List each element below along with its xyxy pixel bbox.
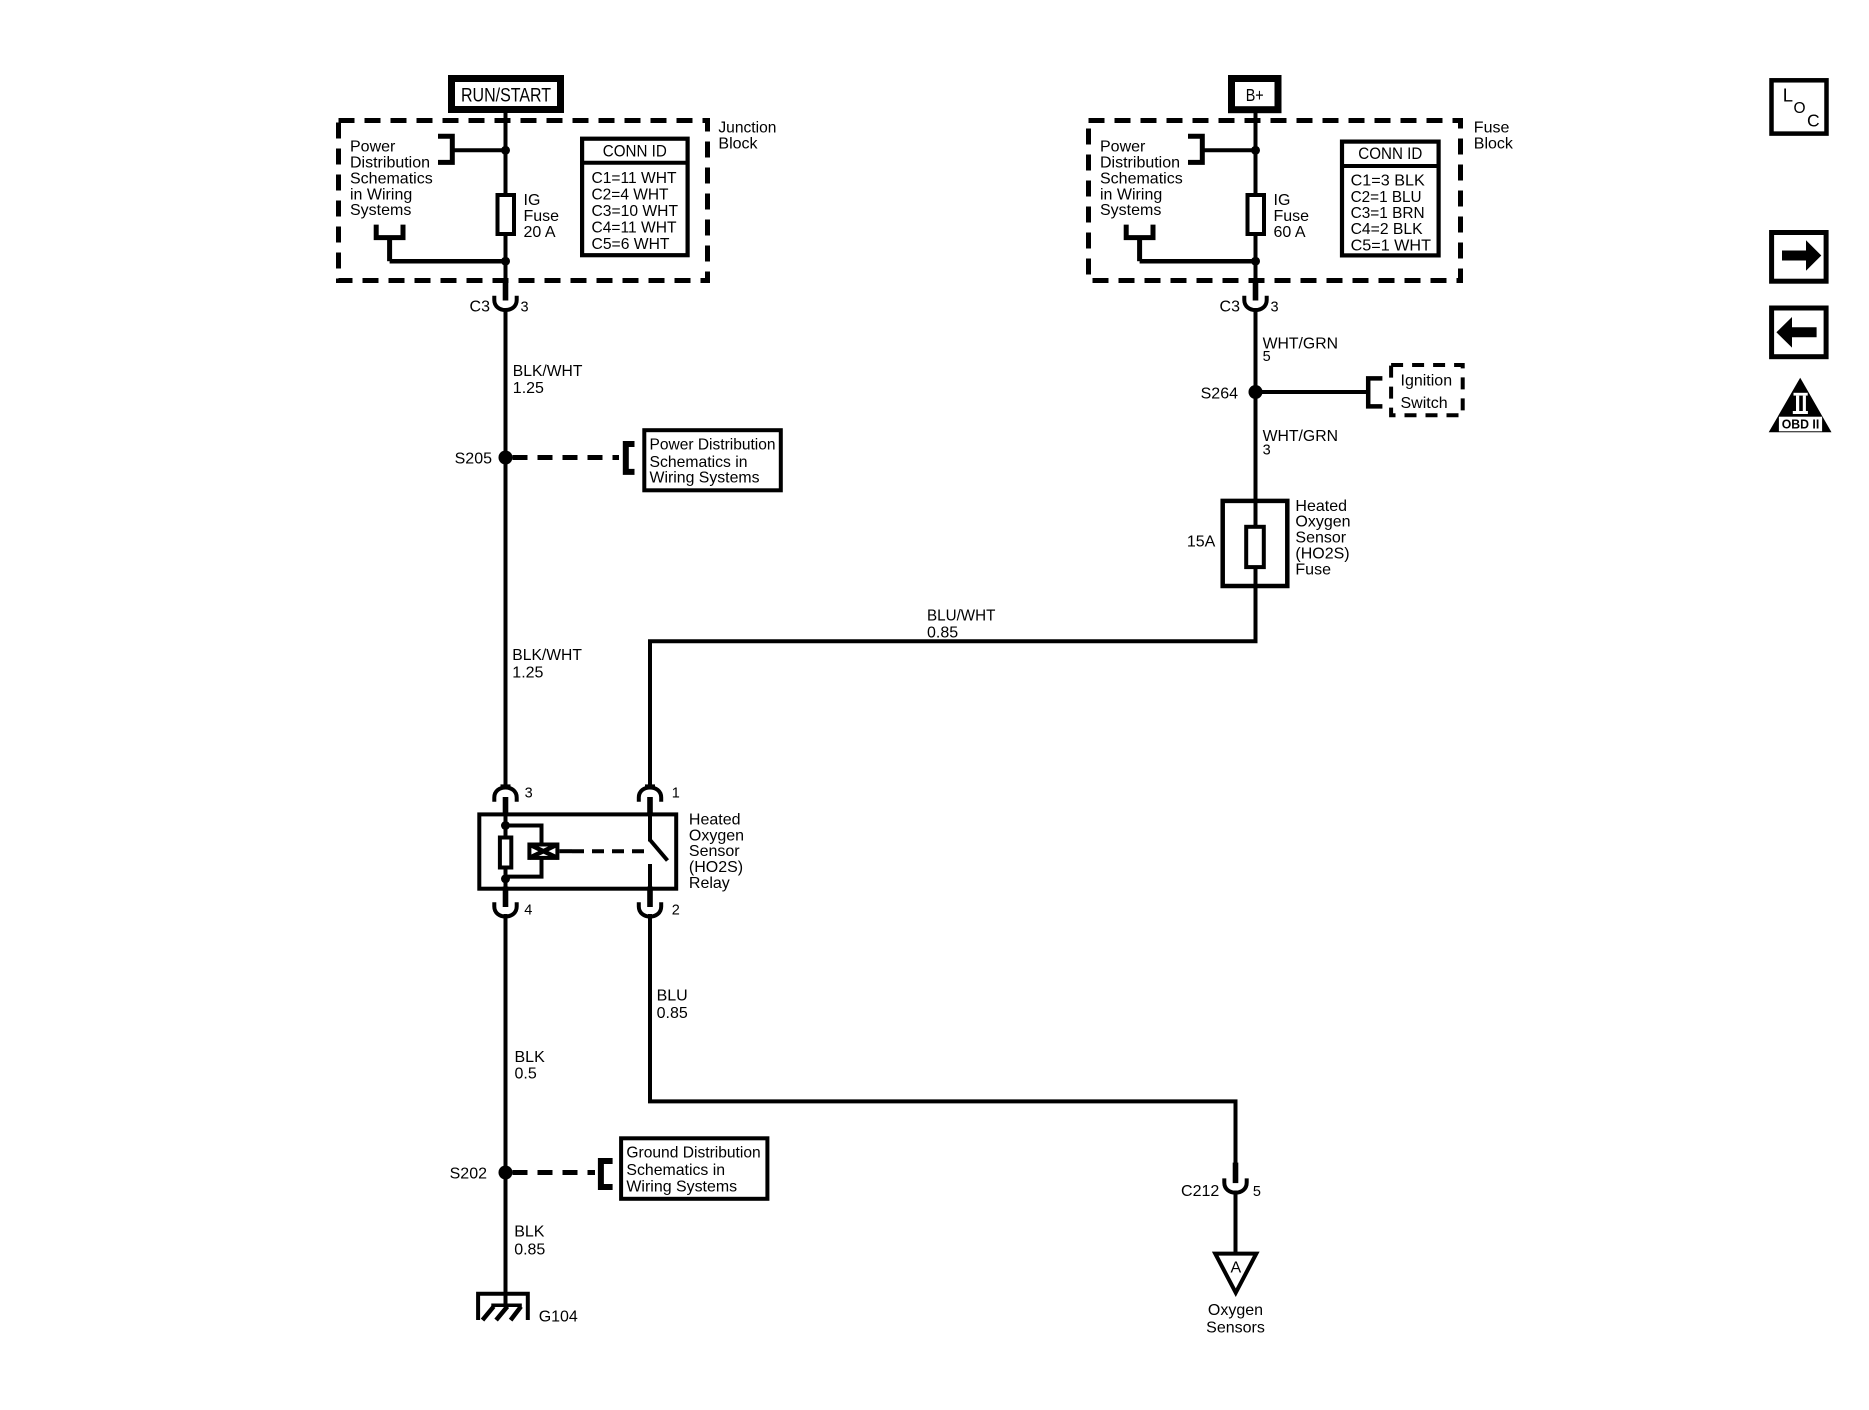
svg-text:Wiring Systems: Wiring Systems [626,1179,737,1196]
svg-text:S264: S264 [1201,386,1238,403]
svg-text:S202: S202 [450,1166,487,1183]
svg-text:Schematics: Schematics [350,170,433,187]
svg-text:3: 3 [1271,300,1279,316]
svg-text:Fuse: Fuse [1274,208,1310,225]
svg-text:C1=11 WHT: C1=11 WHT [592,170,677,187]
svg-text:Distribution: Distribution [350,155,430,172]
svg-text:CONN ID: CONN ID [1358,144,1422,163]
svg-text:BLU: BLU [657,987,688,1004]
svg-text:RUN/START: RUN/START [461,86,551,107]
svg-text:2: 2 [672,903,680,919]
svg-text:in Wiring: in Wiring [1100,186,1162,203]
svg-text:1.25: 1.25 [512,664,543,681]
svg-text:Ground Distribution: Ground Distribution [626,1145,760,1162]
svg-text:0.5: 0.5 [515,1066,537,1083]
svg-text:Schematics in: Schematics in [650,454,748,471]
svg-text:4: 4 [524,903,532,919]
svg-text:Fuse: Fuse [1474,120,1510,137]
svg-text:IG: IG [524,192,541,209]
svg-text:G104: G104 [539,1309,578,1326]
svg-text:BLU/WHT: BLU/WHT [927,608,996,625]
svg-text:C3=1 BRN: C3=1 BRN [1351,205,1425,222]
svg-text:L: L [1783,84,1793,105]
svg-text:C3: C3 [470,299,491,316]
svg-text:Relay: Relay [689,875,730,892]
svg-text:IG: IG [1274,192,1291,209]
svg-text:Switch: Switch [1401,395,1448,412]
svg-text:0.85: 0.85 [927,625,958,642]
svg-text:1: 1 [672,786,680,802]
svg-text:WHT/GRN: WHT/GRN [1263,428,1338,445]
svg-text:Heated: Heated [1295,498,1347,515]
svg-text:C3=10 WHT: C3=10 WHT [592,203,679,220]
svg-text:3: 3 [521,300,529,316]
svg-text:3: 3 [1263,442,1271,458]
svg-text:Fuse: Fuse [524,208,560,225]
svg-text:C1=3 BLK: C1=3 BLK [1351,173,1426,190]
svg-text:Sensor: Sensor [1295,530,1346,547]
svg-text:Sensor: Sensor [689,843,740,860]
svg-text:WHT/GRN: WHT/GRN [1263,336,1338,353]
svg-text:BLK/WHT: BLK/WHT [513,363,583,380]
svg-text:B+: B+ [1246,85,1264,105]
svg-text:1.25: 1.25 [513,380,544,397]
svg-text:C2=4 WHT: C2=4 WHT [592,187,669,204]
svg-text:3: 3 [525,786,533,802]
svg-text:0.85: 0.85 [514,1242,545,1259]
svg-text:Systems: Systems [350,202,411,219]
svg-text:5: 5 [1263,349,1271,365]
svg-text:Oxygen: Oxygen [1208,1302,1263,1319]
svg-text:Distribution: Distribution [1100,155,1180,172]
svg-text:Block: Block [1474,135,1514,152]
svg-text:60 A: 60 A [1274,224,1306,241]
svg-text:C2=1 BLU: C2=1 BLU [1351,189,1422,206]
svg-text:15A: 15A [1187,533,1216,550]
svg-text:Fuse: Fuse [1295,561,1331,578]
svg-text:20 A: 20 A [524,224,556,241]
svg-text:Power: Power [350,139,396,156]
svg-text:O: O [1794,100,1806,117]
svg-text:OBD II: OBD II [1782,418,1820,432]
svg-text:5: 5 [1253,1184,1261,1200]
svg-text:Power: Power [1100,139,1146,156]
svg-text:C4=2 BLK: C4=2 BLK [1351,221,1423,238]
svg-text:Schematics in: Schematics in [626,1162,725,1179]
svg-text:(HO2S): (HO2S) [689,859,743,876]
svg-text:(HO2S): (HO2S) [1295,546,1349,563]
svg-text:S205: S205 [455,451,492,468]
svg-text:C4=11 WHT: C4=11 WHT [592,220,677,237]
svg-text:C212: C212 [1181,1183,1219,1200]
svg-text:Sensors: Sensors [1206,1320,1265,1337]
svg-text:Block: Block [718,135,758,152]
svg-text:BLK: BLK [515,1049,546,1066]
svg-text:Oxygen: Oxygen [1295,514,1350,531]
svg-text:Heated: Heated [689,811,741,828]
svg-text:Power Distribution: Power Distribution [650,437,776,454]
svg-text:Schematics: Schematics [1100,170,1183,187]
svg-text:0.85: 0.85 [657,1005,688,1022]
svg-text:BLK/WHT: BLK/WHT [512,647,582,664]
svg-text:Ignition: Ignition [1401,372,1453,389]
svg-text:C: C [1807,111,1820,131]
svg-text:C5=1 WHT: C5=1 WHT [1351,237,1432,254]
svg-text:C3: C3 [1220,299,1241,316]
svg-text:Wiring Systems: Wiring Systems [650,470,760,487]
svg-text:Junction: Junction [718,120,776,137]
svg-text:Oxygen: Oxygen [689,827,744,844]
svg-text:CONN ID: CONN ID [603,141,667,160]
svg-text:BLK: BLK [514,1223,545,1240]
svg-text:Systems: Systems [1100,202,1161,219]
svg-text:A: A [1230,1260,1241,1277]
svg-text:in Wiring: in Wiring [350,186,412,203]
svg-text:C5=6 WHT: C5=6 WHT [592,236,670,253]
